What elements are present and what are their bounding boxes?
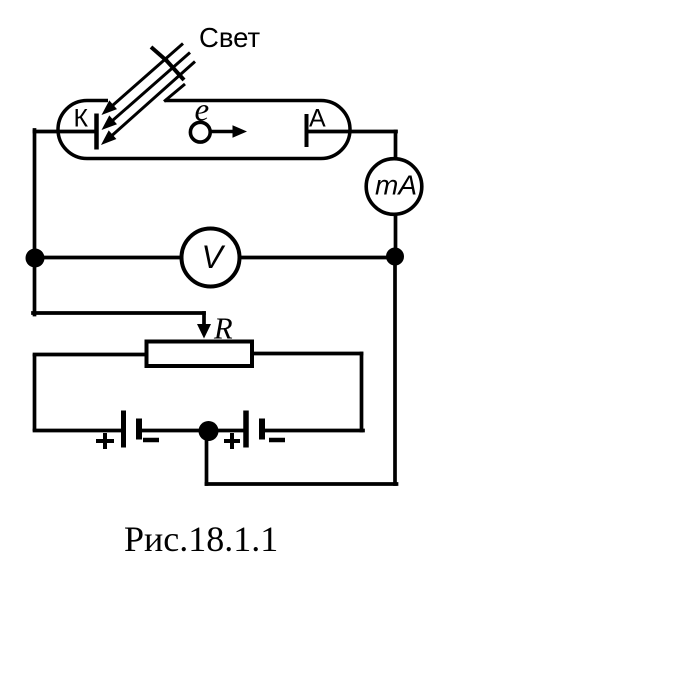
svg-text:R: R (213, 312, 233, 346)
svg-text:Рис.18.1.1: Рис.18.1.1 (124, 519, 278, 559)
svg-text:mA: mA (375, 169, 417, 200)
svg-text:Свет: Свет (199, 22, 261, 53)
svg-text:К: К (74, 104, 89, 132)
svg-text:А: А (309, 104, 326, 132)
svg-text:e: e (195, 93, 210, 129)
svg-text:V: V (202, 239, 226, 275)
